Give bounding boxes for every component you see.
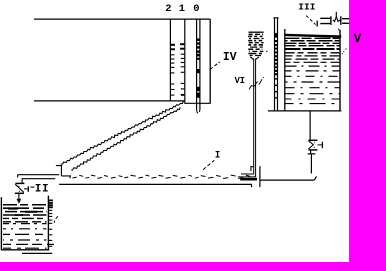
svg-text:III: III [298,1,315,12]
pipe to valve II lower line [22,179,55,184]
svg-text:II: II [35,184,49,196]
tube elbow lower [238,176,256,178]
scale tube right wall [184,19,186,103]
coupling flange right [340,16,342,25]
drain pipe lower [308,150,316,174]
svg-text:2: 2 [165,3,171,15]
plug funnel neck [250,57,259,60]
tube break squiggle [249,82,257,90]
pipe to valve II upper line [17,175,59,178]
drain pipe upper [309,111,311,140]
label II [31,186,35,188]
tank II bottom [1,249,49,251]
tube elbow upper [241,173,254,175]
svg-text:0: 0 [193,3,199,15]
cotton plug scribble block [248,32,263,55]
capillary outlet tail [197,110,198,113]
svg-text:VI: VI [235,76,245,86]
label V leader [342,49,346,54]
tank II leader curl [54,216,58,223]
tank II liquid dense rows [3,205,47,222]
scale tube right ticks [180,44,184,95]
manometer capillary left wall [196,19,198,110]
scale tube left ticks [171,45,175,95]
ramp outlet cap [56,166,71,179]
channel floor line [59,184,251,187]
sight tube right wall [277,18,279,111]
tank II wall graduations [49,200,53,246]
tank V surface rim [285,35,341,37]
tube elbow thick underline [240,178,257,181]
coupling flange left [320,18,330,23]
magenta side panel [349,0,386,271]
label III leader [306,16,316,25]
svg-text:1: 1 [179,3,185,15]
label I leader [203,160,214,169]
channel box top wall [34,18,210,20]
ramp upper scribbly wall [61,101,184,164]
leader end bar [316,21,318,27]
sight tube liquid stripes [275,33,278,99]
capillary liquid segments [197,39,200,98]
channel box bottom wall [34,100,184,102]
tank V right wall [339,30,341,111]
tube assembly bottom closing wall [184,102,210,104]
svg-text:I: I [215,150,220,162]
tank II left wall [0,197,2,250]
tank II outer bottom [22,252,52,254]
scale tube left wall [169,19,171,101]
tank II liquid sparse rows [3,224,54,249]
manometer capillary right wall [199,19,201,110]
svg-text:V: V [354,32,362,46]
sight tube cap [273,17,278,19]
tube assembly outer right wall [209,19,211,103]
sampling tube right wall [255,59,257,178]
water surface wavy line I [73,175,251,178]
tank V bottom [268,110,342,112]
stray dot [266,51,267,52]
valve V body [308,140,322,150]
valve II outlet arrow [18,193,20,200]
sight tube left wall [274,18,276,111]
valve II body [15,183,28,193]
svg-text:IV: IV [223,50,237,64]
magenta bottom strip [0,262,386,271]
outlet stand vertical [259,166,261,187]
ramp lower scribbly wall [71,107,180,170]
tube mounting hook [251,167,254,171]
tank V liquid rows [286,38,340,103]
sampling tube left wall [253,59,255,175]
centre piece tail [338,29,340,31]
label IV leader [210,62,220,70]
tank II right wall [47,196,49,251]
coupling centre piece [334,12,338,22]
outlet stand horizontal [260,176,317,180]
tank V left wall [284,29,286,110]
